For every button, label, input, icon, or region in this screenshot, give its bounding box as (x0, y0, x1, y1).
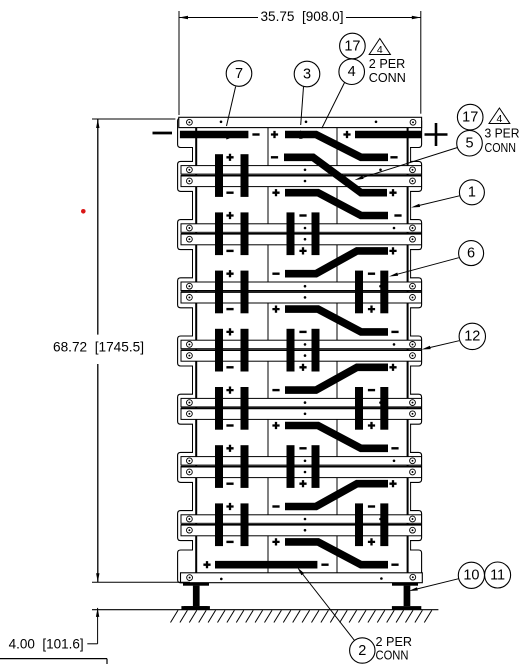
terminal posts pair L at shelf S3 (215, 271, 249, 314)
red revision marker dot (81, 209, 86, 214)
shelf rail S2 (181, 224, 422, 245)
polarity labels at posts L S5 (226, 387, 233, 426)
dimension 35.75 [908.0] top width (179, 8, 421, 115)
label + bay2 top right (389, 189, 396, 196)
balloon 17 right (457, 104, 483, 130)
right side rail vertical members (408, 128, 411, 583)
left foot plate (181, 606, 210, 610)
leader to balloon 3 (299, 87, 303, 139)
leader to balloon 7 (225, 87, 236, 140)
svg-text:3: 3 (303, 66, 311, 82)
left rail clamp bracket at shelf S1 (178, 161, 193, 191)
shelf rail S7 (181, 515, 422, 536)
polarity labels at posts L S3 (226, 270, 233, 309)
label - bay8 bottom right (391, 564, 398, 566)
positive terminal symbol (425, 123, 448, 146)
connector Z bay7 (285, 484, 388, 507)
label + top middle (271, 131, 278, 138)
svg-text:CONN: CONN (369, 70, 406, 85)
triangle flag note 4 top (369, 39, 390, 56)
balloon 10 (458, 562, 484, 588)
note 3 PER CONN right (485, 126, 520, 155)
svg-text:17: 17 (344, 38, 360, 54)
right leg pad (392, 583, 418, 586)
left leg pad (183, 583, 209, 586)
balloon 7 (226, 61, 252, 87)
polarity labels at posts R S5 (368, 390, 375, 429)
top negative busbar (180, 131, 249, 139)
polarity labels at posts L S1 (226, 154, 233, 193)
svg-text:6: 6 (467, 245, 475, 261)
label + bay4 middle top (272, 306, 279, 313)
dimension 68.72 [1745.5] overall height (53, 119, 175, 582)
svg-text:10: 10 (463, 568, 479, 584)
dimension 4.00 [101.6] leg height (9, 582, 190, 651)
svg-text:4: 4 (348, 64, 356, 80)
ground line with hatching (92, 610, 438, 623)
terminal posts pair R at shelf S5 (355, 387, 388, 430)
svg-text:68.72 [1745.5]: 68.72 [1745.5] (53, 339, 144, 355)
top-left rail clamp bracket (178, 118, 193, 148)
left rail clamp bracket at shelf S6 (178, 452, 193, 482)
polarity labels at posts L S4 (226, 328, 233, 367)
connector Z bay2 (285, 193, 388, 216)
polarity labels at posts L S2 (226, 212, 233, 251)
label - after top busbar (252, 133, 259, 135)
terminal posts pair L at shelf S4 (215, 329, 249, 372)
svg-text:5: 5 (465, 136, 473, 152)
polarity labels at posts M S4 (299, 332, 306, 371)
shelf rail S3 (181, 282, 422, 303)
label - bay7 middle bottom (272, 505, 279, 507)
label - bay1 middle bottom (271, 156, 278, 158)
polarity labels at posts L S7 (226, 503, 233, 542)
note 2 PER CONN bottom (376, 634, 413, 662)
terminal posts pair L at shelf S1 (215, 154, 249, 197)
polarity labels at posts L S6 (226, 445, 233, 484)
connector Z bay5 (285, 367, 388, 390)
terminal posts pair M at shelf S4 (287, 329, 320, 372)
label - bay3 middle bottom (272, 273, 279, 275)
right rail clamp bracket at shelf S6 (410, 452, 422, 482)
label + bottom busbar left (203, 561, 210, 568)
svg-text:CONN: CONN (485, 140, 517, 155)
label - bay1 bottom right (390, 156, 397, 158)
polarity labels at posts R S7 (368, 507, 375, 546)
right rail clamp bracket at shelf S1 (410, 161, 422, 191)
balloon 4 (339, 59, 365, 85)
shelf rail S6 (181, 457, 422, 478)
svg-text:11: 11 (490, 567, 505, 583)
balloon 6 (459, 241, 484, 266)
leader to balloon 2 (297, 567, 354, 640)
label - after bottom busbar (321, 564, 328, 566)
left rail clamp bracket at shelf S4 (178, 336, 193, 366)
balloon 2 (350, 638, 375, 663)
bottom long busbar (215, 561, 317, 569)
svg-text:2 PER: 2 PER (369, 56, 406, 71)
leader to balloon 1 (411, 196, 459, 208)
top-right rail clamp bracket (410, 118, 422, 148)
svg-text:35.75 [908.0]: 35.75 [908.0] (261, 8, 344, 24)
right rail clamp bracket at shelf S5 (410, 394, 422, 424)
label + bay8 middle top (272, 538, 279, 545)
note 2 PER CONN top (369, 56, 406, 85)
svg-text:4.00 [101.6]: 4.00 [101.6] (9, 635, 84, 651)
connector Z bay1 top (285, 135, 388, 158)
label + top right (343, 131, 350, 138)
terminal posts pair L at shelf S6 (215, 445, 249, 488)
balloon 5 (457, 130, 483, 156)
left rail clamp bracket at shelf S5 (178, 394, 193, 424)
battery jar divider lines (268, 128, 337, 573)
polarity labels at posts R S3 (368, 274, 375, 313)
connector Z bay4 (285, 309, 388, 332)
left rail clamp bracket at shelf S2 (178, 220, 193, 250)
balloon 17 top (340, 33, 366, 59)
connector Z bay8 (285, 542, 388, 565)
left rail clamp bracket at shelf S3 (178, 278, 193, 308)
leader to balloon 6 (389, 258, 459, 277)
label - bay2 bottom right (394, 214, 401, 216)
terminal posts pair L at shelf S2 (215, 212, 249, 255)
balloon 1 (459, 180, 484, 205)
label + bay5 top right (389, 364, 396, 371)
label + bay3 top right (389, 247, 396, 254)
svg-text:17: 17 (462, 109, 478, 125)
top rail S0 (179, 117, 422, 127)
svg-text:7: 7 (235, 66, 243, 82)
right rail clamp bracket at shelf S4 (410, 336, 422, 366)
leader to balloon 10 (409, 579, 459, 591)
connector Z bay1-bay2 cross shelf (284, 157, 387, 192)
terminal posts pair M at shelf S2 (287, 212, 320, 255)
svg-text:CONN: CONN (376, 647, 409, 662)
right leg (404, 586, 411, 607)
right foot plate (392, 606, 421, 610)
svg-text:12: 12 (464, 329, 480, 345)
label - bay6 bottom right (391, 447, 398, 449)
svg-text:4: 4 (496, 113, 502, 125)
shelf rail S5 (181, 398, 422, 419)
left rail clamp bracket at shelf S7 (178, 511, 193, 541)
shelf rail S1 (181, 166, 422, 187)
leader to balloon 4 (320, 83, 345, 142)
title block corner lines (0, 659, 107, 664)
terminal posts pair M at shelf S6 (287, 445, 320, 488)
bottom rail S8 (181, 573, 423, 583)
leader to balloon 12 (422, 341, 460, 350)
balloon 3 (294, 61, 320, 87)
left leg (193, 586, 200, 607)
terminal posts pair L at shelf S5 (215, 387, 249, 430)
svg-text:3 PER: 3 PER (485, 126, 520, 141)
bottom-left rail clamp bracket (178, 550, 193, 583)
left side rail vertical members (193, 128, 197, 583)
svg-text:1: 1 (468, 185, 476, 201)
terminal posts pair R at shelf S3 (355, 271, 388, 314)
terminal posts pair L at shelf S7 (215, 503, 249, 546)
label - bay5 middle bottom (272, 389, 279, 391)
polarity labels at posts M S6 (299, 448, 306, 487)
polarity labels at posts M S2 (299, 216, 306, 255)
bottom-right rail clamp bracket (410, 550, 422, 583)
connector Z bay6 (285, 426, 388, 449)
balloon 11 (485, 562, 511, 588)
triangle flag note 4 right (489, 108, 510, 125)
leader to balloon 5 (355, 148, 458, 181)
right rail clamp bracket at shelf S2 (410, 220, 422, 250)
connector Z bay3 (285, 251, 388, 274)
label - bay4 bottom right (391, 331, 398, 333)
label + bay6 middle top (272, 422, 279, 429)
balloon 12 (459, 323, 485, 349)
svg-text:2: 2 (358, 643, 366, 659)
negative terminal symbol (153, 132, 173, 135)
label + bay7 top right (389, 480, 396, 487)
label + bay2 middle top (272, 189, 279, 196)
svg-text:4: 4 (377, 44, 383, 56)
right rail clamp bracket at shelf S3 (410, 278, 422, 308)
top positive busbar (355, 131, 422, 139)
right rail clamp bracket at shelf S7 (410, 511, 422, 541)
terminal posts pair R at shelf S7 (355, 503, 388, 546)
shelf rail S4 (181, 340, 422, 361)
